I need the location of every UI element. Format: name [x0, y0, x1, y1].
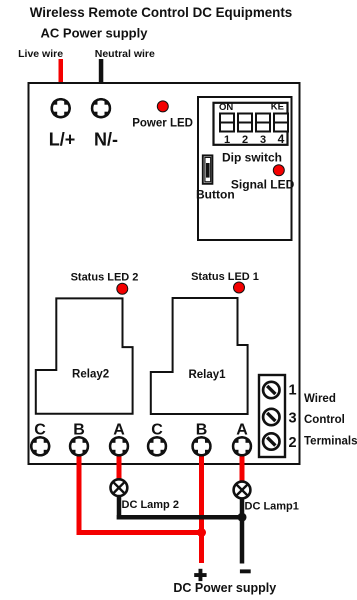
svg-text:L/+: L/+ — [49, 130, 76, 150]
svg-text:B: B — [73, 422, 85, 439]
svg-text:C: C — [151, 422, 163, 439]
svg-text:DC Power supply: DC Power supply — [173, 581, 276, 595]
svg-text:AC Power supply: AC Power supply — [41, 26, 149, 41]
svg-text:KE: KE — [271, 102, 284, 113]
svg-text:Neutral wire: Neutral wire — [95, 48, 155, 60]
svg-text:DC Lamp 2: DC Lamp 2 — [122, 499, 179, 511]
svg-text:Relay2: Relay2 — [72, 369, 109, 381]
svg-text:Terminals: Terminals — [304, 436, 357, 448]
svg-text:Live wire: Live wire — [18, 48, 63, 60]
svg-text:Wired: Wired — [304, 393, 336, 405]
svg-text:4: 4 — [278, 132, 285, 146]
svg-text:3: 3 — [260, 134, 266, 146]
svg-text:1: 1 — [288, 383, 296, 399]
svg-text:2: 2 — [242, 134, 248, 146]
svg-text:Button: Button — [196, 188, 235, 202]
svg-text:A: A — [113, 422, 125, 439]
svg-text:Signal LED: Signal LED — [231, 178, 295, 192]
svg-text:Power LED: Power LED — [132, 118, 193, 130]
svg-text:A: A — [236, 422, 248, 439]
svg-text:ON: ON — [219, 102, 233, 113]
svg-text:C: C — [34, 422, 46, 439]
svg-text:DC Lamp1: DC Lamp1 — [245, 501, 299, 513]
svg-text:Wireless Remote Control DC Equ: Wireless Remote Control DC Equipments — [30, 5, 293, 20]
svg-text:Dip switch: Dip switch — [222, 151, 282, 165]
svg-text:2: 2 — [288, 435, 296, 451]
svg-text:3: 3 — [288, 410, 296, 426]
svg-text:Status LED 2: Status LED 2 — [71, 272, 139, 284]
svg-text:N/-: N/- — [94, 130, 118, 150]
svg-text:Status LED 1: Status LED 1 — [191, 271, 259, 283]
svg-text:1: 1 — [224, 134, 230, 146]
svg-text:Relay1: Relay1 — [188, 369, 226, 381]
svg-text:B: B — [196, 422, 208, 439]
svg-text:Control: Control — [304, 414, 345, 426]
